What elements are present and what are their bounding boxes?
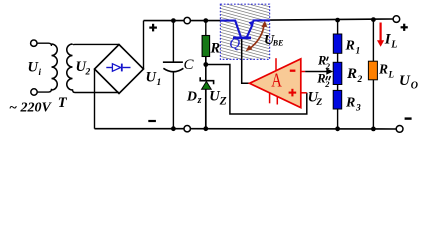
terminal circle bottom mid bbox=[184, 126, 190, 132]
node cap bottom bbox=[171, 126, 176, 131]
svg-text:R: R bbox=[345, 96, 355, 111]
AC input terminal top bbox=[31, 40, 37, 46]
wire minus input to wiper bbox=[301, 71, 305, 73]
svg-text:~ 220V: ~ 220V bbox=[9, 100, 52, 115]
resistor R1 bbox=[337, 20, 339, 34]
svg-text:L: L bbox=[388, 70, 395, 80]
AC input terminal bottom bbox=[31, 89, 37, 95]
wire bridge right corner to top rail bbox=[143, 21, 145, 69]
svg-text:3: 3 bbox=[355, 104, 361, 114]
svg-text:R: R bbox=[346, 66, 357, 82]
resistor R (green) bbox=[205, 21, 207, 36]
svg-text:R: R bbox=[210, 41, 221, 57]
svg-text:T: T bbox=[58, 95, 68, 111]
transformer T primary winding bbox=[52, 44, 58, 90]
svg-text:2: 2 bbox=[325, 61, 331, 71]
svg-text:O: O bbox=[411, 80, 418, 91]
node R1 top bbox=[335, 18, 340, 23]
label + (U1 top polarity) bbox=[149, 24, 157, 32]
wire R1-R2 bbox=[337, 53, 339, 62]
svg-text:L: L bbox=[390, 40, 397, 51]
wire R2-R3 bbox=[337, 85, 339, 91]
output terminal - bbox=[396, 125, 403, 132]
svg-text:1: 1 bbox=[157, 78, 162, 88]
bridge rectifier diamond bbox=[95, 45, 144, 94]
wire bottom rail bbox=[95, 128, 185, 130]
node RL bottom bbox=[371, 126, 376, 131]
svg-text:2: 2 bbox=[85, 68, 91, 78]
svg-text:R: R bbox=[345, 39, 355, 54]
svg-text:Z: Z bbox=[315, 98, 322, 108]
bridge diode bbox=[106, 64, 130, 72]
wire top rail right of box bbox=[270, 19, 394, 20]
svg-text:C: C bbox=[184, 57, 195, 73]
svg-text:BE: BE bbox=[272, 38, 284, 47]
wire + input red stub bbox=[301, 92, 307, 94]
wire secondary bottom lead bbox=[73, 89, 120, 92]
svg-text:U: U bbox=[399, 73, 411, 89]
transistor Q bbox=[220, 20, 269, 38]
arrow UBE (curved, two heads) bbox=[251, 25, 265, 48]
label - (U1 bottom polarity) bbox=[148, 120, 156, 122]
svg-text:Q: Q bbox=[229, 36, 240, 52]
node R3 bottom bbox=[335, 126, 340, 131]
svg-text:1: 1 bbox=[356, 47, 361, 57]
zener diode Dz bbox=[200, 77, 213, 84]
wire top rail (cont) bbox=[190, 20, 220, 22]
svg-text:R: R bbox=[378, 62, 388, 77]
wire bottom rail (cont) bbox=[190, 128, 396, 130]
arrow IL bbox=[380, 23, 382, 42]
wire zener to + input (around bottom) bbox=[206, 65, 307, 115]
wire primary bottom lead bbox=[37, 89, 51, 92]
resistor R2 bbox=[333, 62, 342, 84]
op-amp plus input mark bbox=[289, 89, 297, 97]
svg-text:D: D bbox=[186, 89, 197, 104]
transformer T secondary winding bbox=[67, 44, 73, 90]
wire R3 bottom bbox=[337, 109, 339, 129]
node R top bbox=[203, 18, 208, 23]
svg-text:R: R bbox=[316, 72, 325, 86]
node RL top bbox=[371, 17, 376, 22]
node zener bottom bbox=[203, 126, 208, 131]
output terminal + bbox=[393, 16, 400, 23]
svg-text:2: 2 bbox=[324, 79, 330, 89]
svg-text:Z: Z bbox=[219, 95, 227, 107]
svg-text:z: z bbox=[197, 95, 202, 106]
wire secondary top lead bbox=[73, 43, 120, 45]
op-amp supply stub top bbox=[275, 58, 277, 70]
wire top rail bbox=[144, 20, 185, 22]
terminal circle top mid bbox=[184, 17, 190, 23]
node cap top bbox=[171, 18, 176, 23]
hatched box around Q bbox=[220, 4, 269, 59]
wire op-amp output to base bbox=[242, 39, 250, 83]
wire primary top lead bbox=[37, 43, 52, 46]
node R / zener junction bbox=[203, 62, 208, 67]
op-amp supply stub bottom right bbox=[276, 97, 278, 105]
op-amp A bbox=[250, 59, 301, 108]
svg-text:A: A bbox=[271, 71, 282, 92]
op-amp minus input mark bbox=[290, 70, 296, 72]
capacitor C bbox=[172, 21, 174, 62]
wire bridge left corner to bottom rail bbox=[94, 69, 96, 129]
svg-text:2: 2 bbox=[357, 75, 363, 85]
resistor RL bbox=[372, 20, 374, 62]
op-amp supply stub bottom left bbox=[269, 93, 271, 103]
resistor R3 bbox=[333, 90, 342, 109]
